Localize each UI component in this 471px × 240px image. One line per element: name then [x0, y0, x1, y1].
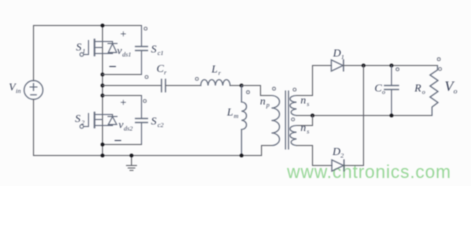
- svg-text:D: D: [332, 146, 341, 158]
- wire primary bottom lead: [262, 146, 272, 156]
- node Lr Lm junction: [240, 84, 244, 88]
- label Vo: [445, 79, 458, 96]
- label vds2: [119, 119, 134, 133]
- node Co top: [390, 64, 394, 68]
- capacitor Cs2: [136, 96, 148, 145]
- wire node to primary top: [242, 86, 272, 96]
- svg-text:r: r: [218, 70, 221, 77]
- label plus vds2: [120, 97, 127, 109]
- wire left rail upper: [33, 26, 35, 81]
- node D2 branch top: [362, 64, 366, 68]
- wire Cs1 loop bottom: [103, 74, 142, 76]
- svg-text:n: n: [301, 122, 307, 134]
- svg-text:1: 1: [82, 48, 85, 55]
- svg-text:R: R: [414, 83, 422, 95]
- wire ns top lead to D1: [297, 66, 332, 96]
- transformer primary np: [272, 96, 280, 146]
- label np: [260, 96, 270, 110]
- node Co bottom: [390, 114, 394, 118]
- svg-text:S: S: [76, 42, 82, 54]
- wire center tap rail: [297, 115, 432, 117]
- svg-text:S: S: [151, 44, 157, 56]
- label vds1: [117, 45, 131, 59]
- label S1 gate: [76, 42, 86, 56]
- svg-text:2: 2: [341, 153, 345, 160]
- svg-text:2: 2: [81, 120, 85, 127]
- svg-text:ds2: ds2: [124, 125, 134, 132]
- node S2 source rail: [101, 154, 105, 158]
- label Lr: [211, 64, 222, 78]
- marker o Lr left: [195, 77, 198, 80]
- voltage source Vin: [24, 81, 43, 100]
- svg-text:D: D: [332, 48, 341, 60]
- svg-text:c2: c2: [158, 122, 165, 129]
- capacitor Cr: [162, 79, 166, 92]
- wire Cs2 loop top: [103, 95, 142, 97]
- capacitor Cs1: [136, 26, 148, 75]
- label minus vds2: [115, 140, 121, 142]
- node drain S2: [101, 94, 105, 98]
- transformer core: [286, 91, 289, 149]
- marker o Cs1 top: [144, 27, 147, 30]
- ground: [127, 156, 137, 171]
- capacitor Co: [385, 66, 399, 116]
- marker o Ro top: [439, 68, 442, 71]
- node source S1: [101, 73, 105, 77]
- wire Cs2 loop bottom: [103, 144, 142, 146]
- wire half-bridge vertical: [102, 26, 104, 156]
- label Sc1: [151, 44, 164, 58]
- marker o Cs2 top: [143, 100, 146, 103]
- wire ns bottom lead to D2: [297, 146, 332, 166]
- label minus vds1: [110, 66, 116, 68]
- marker o ns top: [293, 88, 296, 91]
- label S2 gate: [75, 113, 85, 127]
- svg-text:+: +: [120, 97, 127, 109]
- svg-text:r: r: [164, 70, 167, 77]
- transistor Q S1: [80, 40, 117, 57]
- wire top rail: [34, 25, 142, 27]
- svg-text:n: n: [301, 95, 307, 107]
- label Ro: [414, 83, 427, 97]
- svg-text:ds1: ds1: [122, 51, 131, 58]
- wire bottom rail: [34, 155, 262, 157]
- marker o Cs1 bottom: [145, 76, 148, 79]
- label ns top: [301, 95, 310, 109]
- node source S2: [101, 143, 105, 147]
- node center tap: [311, 114, 315, 118]
- wire Lr to node: [230, 85, 241, 87]
- label Cr: [157, 63, 168, 77]
- label ns bottom: [301, 122, 310, 136]
- svg-text:S: S: [151, 116, 157, 128]
- label Vin: [9, 82, 21, 96]
- transistor Q S2: [80, 113, 117, 129]
- node ground: [130, 154, 134, 158]
- svg-text:L: L: [226, 107, 233, 119]
- marker o Co top: [396, 68, 399, 71]
- diode D1: [331, 60, 343, 71]
- svg-text:o: o: [454, 87, 458, 96]
- svg-text:o: o: [422, 89, 426, 96]
- svg-text:p: p: [265, 102, 270, 109]
- wire D2 to branch: [344, 165, 364, 167]
- svg-text:c1: c1: [158, 50, 164, 57]
- label plus vds1: [120, 28, 127, 40]
- svg-text:n: n: [260, 96, 266, 108]
- transformer secondary ns bottom: [290, 126, 297, 146]
- svg-text:in: in: [16, 88, 21, 95]
- svg-text:s: s: [307, 101, 310, 108]
- wire ns bottom top lead: [297, 116, 313, 126]
- label D1: [332, 48, 344, 62]
- svg-text:s: s: [307, 129, 310, 136]
- label Sc2: [151, 116, 164, 130]
- node drain S1: [101, 24, 105, 28]
- wire midpoint to Cr: [103, 85, 162, 87]
- marker o ns bottom: [292, 118, 295, 121]
- resistor Ro: [430, 66, 438, 116]
- marker o Lm top: [247, 91, 250, 94]
- label Co: [375, 83, 387, 97]
- label Lm: [226, 107, 239, 121]
- marker o Vo top: [437, 58, 440, 61]
- watermark www.chtronics.com: [287, 162, 451, 183]
- svg-text:m: m: [234, 113, 239, 120]
- diode D2: [332, 160, 344, 171]
- wire D2 branch vertical: [363, 66, 365, 166]
- inductor Lm: [242, 86, 247, 156]
- label D2: [332, 146, 345, 160]
- svg-text:+: +: [120, 28, 127, 40]
- wire Cr to Lr: [166, 85, 201, 87]
- svg-text:1: 1: [341, 54, 344, 61]
- wire D1 to output top rail: [344, 65, 438, 67]
- node Lm bottom: [240, 154, 244, 158]
- transformer secondary ns top: [290, 96, 296, 116]
- svg-text:S: S: [75, 113, 81, 125]
- svg-text:L: L: [211, 64, 218, 76]
- node midpoint Cr tap: [101, 84, 105, 88]
- wire left rail lower: [33, 99, 35, 155]
- inductor Lr: [201, 80, 230, 86]
- marker o np top: [273, 87, 276, 90]
